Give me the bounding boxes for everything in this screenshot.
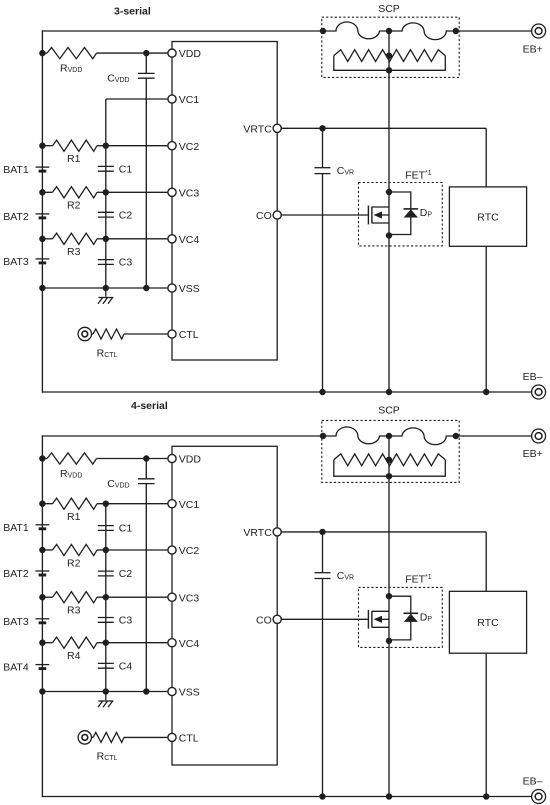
capacitor CVDD (4-serial) [138, 478, 155, 480]
node FET source (4-serial) [386, 638, 392, 644]
wire RTC to EB- rail (4-serial) [485, 653, 487, 796]
ground symbol (4-serial) [105, 692, 107, 701]
wire CO net (3-serial) [281, 214, 368, 216]
wire R2 leads (4-serial) [42, 549, 52, 551]
resistor R1 (4-serial) [53, 498, 98, 509]
node FET source (3-serial) [386, 232, 392, 238]
svg-text:BAT1: BAT1 [3, 164, 29, 176]
node VDD/rail junction (3-serial) [39, 50, 45, 56]
svg-text:C4: C4 [119, 660, 133, 672]
pin VC3 (4-serial) [168, 593, 176, 601]
pin VC4 (3-serial) [168, 235, 176, 243]
svg-text:R3: R3 [67, 246, 81, 258]
battery BAT3 (3-serial) [36, 258, 50, 260]
node RTC/EB- rail junction (4-serial) [483, 793, 489, 799]
svg-text:RCTL: RCTL [97, 347, 118, 359]
node sense/R3 junction (3-serial) [103, 236, 109, 242]
battery BAT4 (4-serial) [36, 664, 50, 666]
node CVDD/VDD junction (4-serial) [143, 455, 149, 461]
wire SCP output to EB+ (3-serial) [456, 30, 532, 32]
capacitor CVR (3-serial) [315, 167, 331, 169]
svg-text:BAT3: BAT3 [3, 616, 29, 628]
svg-text:RVDD: RVDD [60, 62, 82, 74]
svg-text:R1: R1 [67, 511, 81, 523]
wire R1 leads (4-serial) [42, 503, 52, 505]
node CVDD/VSS junction (3-serial) [143, 285, 149, 291]
SCP heater frame (4-serial) [334, 460, 446, 476]
node sense/VSS junction (4-serial) [103, 688, 109, 694]
wire CO net (4-serial) [281, 618, 368, 620]
svg-text:CTL: CTL [179, 733, 199, 745]
svg-text:VC1: VC1 [179, 94, 200, 106]
node SCP fuse center (4-serial) [386, 433, 392, 439]
node rail/R4 junction (4-serial) [39, 640, 45, 646]
svg-text:R1: R1 [67, 153, 81, 165]
transistor Q1 p-channel MOSFET (3-serial) [367, 206, 369, 225]
wire SCP center to FET to EB- rail (3-serial) [388, 31, 390, 392]
svg-text:VDD: VDD [179, 454, 202, 466]
wire SCP output to EB+ (4-serial) [456, 435, 532, 437]
pin VC3 (3-serial) [168, 188, 176, 196]
wire R3 leads (3-serial) [42, 238, 52, 240]
terminal EB- (4-serial) [532, 790, 546, 804]
svg-text:CO: CO [256, 614, 272, 626]
capacitor C3 (3-serial) [98, 259, 114, 261]
wire VSS row (3-serial) [42, 287, 168, 289]
wire CVR lower lead to EB- rail (4-serial) [322, 579, 324, 797]
ground symbol (3-serial) [105, 288, 107, 297]
terminal EB+ (4-serial) [532, 429, 546, 443]
pin CTL (3-serial) [168, 330, 176, 338]
wire sense node column (4-serial) [105, 504, 107, 692]
svg-text:EB+: EB+ [523, 448, 543, 460]
SCP heater resistor (4-serial) [334, 454, 446, 466]
node sense/R4 junction (4-serial) [103, 640, 109, 646]
RTC block (3-serial) [449, 187, 526, 246]
pin VC1 (4-serial) [168, 500, 176, 508]
svg-text:4-serial: 4-serial [131, 400, 168, 412]
resistor RCTL (3-serial) [93, 329, 124, 339]
node sense/R2 junction (4-serial) [103, 547, 109, 553]
battery BAT3 (4-serial) [36, 618, 50, 620]
svg-text:VRTC: VRTC [243, 527, 272, 539]
svg-text:C3: C3 [119, 257, 133, 269]
terminal CTL input (4-serial) [78, 731, 91, 744]
battery BAT1 (3-serial) [36, 166, 50, 168]
wire VC1 lead (3-serial) [106, 98, 168, 100]
wire RTC to EB- rail (3-serial) [485, 246, 487, 392]
transistor Q1 p-channel MOSFET (4-serial) [367, 610, 369, 629]
wire VRTC net (3-serial) [281, 127, 486, 129]
pin VRTC (4-serial) [273, 528, 281, 536]
wire R1 leads (3-serial) [42, 145, 52, 147]
node CVR/EB- rail junction (4-serial) [319, 793, 325, 799]
terminal EB+ (3-serial) [532, 24, 546, 38]
FET dashed outline (4-serial) [359, 587, 443, 647]
diode Dp body diode (4-serial) [389, 596, 411, 640]
wire left rail (4-serial) [41, 435, 43, 797]
svg-text:EB–: EB– [523, 776, 543, 788]
wire VRTC net (4-serial) [281, 531, 486, 533]
svg-text:DP: DP [420, 207, 433, 219]
node rail/R3 junction (4-serial) [39, 594, 45, 600]
svg-text:3-serial: 3-serial [114, 6, 151, 18]
capacitor CVDD (3-serial) [138, 72, 155, 74]
SCP thermal fuse element 1 (4-serial) [323, 427, 389, 444]
svg-text:RTC: RTC [477, 617, 499, 629]
wire CVR upper lead (4-serial) [322, 532, 324, 573]
node SCP fuse right (3-serial) [453, 28, 459, 34]
wire CVR upper lead (3-serial) [322, 128, 324, 167]
resistor R4 (4-serial) [53, 637, 98, 648]
node FET/EB- rail junction (4-serial) [386, 793, 392, 799]
node VDD/rail junction (4-serial) [39, 455, 45, 461]
svg-text:RCTL: RCTL [97, 751, 118, 763]
pin VSS (3-serial) [168, 284, 176, 292]
svg-text:C3: C3 [119, 615, 133, 627]
battery BAT2 (3-serial) [36, 213, 50, 215]
svg-text:CVDD: CVDD [107, 73, 129, 85]
svg-text:R3: R3 [67, 605, 81, 617]
node rail/R1 junction (3-serial) [39, 143, 45, 149]
svg-text:BAT1: BAT1 [3, 522, 29, 534]
resistor R2 (4-serial) [53, 544, 98, 555]
wire R4 leads (4-serial) [42, 642, 52, 644]
svg-text:VC3: VC3 [179, 187, 200, 199]
svg-text:VSS: VSS [179, 283, 200, 295]
terminal CTL input (3-serial) [78, 327, 91, 340]
node RTC/EB- rail junction (3-serial) [483, 389, 489, 395]
SCP heater resistor (3-serial) [334, 50, 446, 62]
pin VC1 (3-serial) [168, 95, 176, 103]
node rail/R1 junction (4-serial) [39, 501, 45, 507]
node rail/VSS junction (3-serial) [39, 285, 45, 291]
node rail/R2 junction (4-serial) [39, 547, 45, 553]
SCP dashed outline (3-serial) [322, 17, 459, 77]
node rail/VSS junction (4-serial) [39, 688, 45, 694]
pin VC2 (4-serial) [168, 546, 176, 554]
SCP thermal fuse element 1 (3-serial) [323, 22, 389, 39]
SCP thermal fuse element 2 (3-serial) [389, 23, 456, 40]
node FET/EB- rail junction (3-serial) [386, 389, 392, 395]
svg-text:CVDD: CVDD [107, 478, 129, 490]
wire bottom rail (4-serial) (VSS to EB-) [42, 796, 532, 798]
node CVR/EB- rail junction (3-serial) [319, 389, 325, 395]
node sense/R3 junction (4-serial) [103, 594, 109, 600]
svg-text:RVDD: RVDD [60, 468, 82, 480]
svg-text:BAT4: BAT4 [3, 662, 29, 674]
pin CO (4-serial) [273, 615, 281, 623]
svg-text:VRTC: VRTC [243, 123, 272, 135]
node VRTC/CVR junction (3-serial) [319, 125, 325, 131]
wire R3 leads (4-serial) [42, 596, 52, 598]
wire left rail (3-serial) [41, 30, 43, 392]
svg-text:VC1: VC1 [179, 499, 200, 511]
resistor RCTL (4-serial) [93, 732, 124, 742]
wire CVDD upper lead (3-serial) [145, 53, 147, 73]
svg-text:VSS: VSS [179, 687, 200, 699]
wire CVDD upper lead (4-serial) [145, 459, 147, 479]
IC protection-IC block (3-serial) [172, 42, 277, 361]
svg-text:VC2: VC2 [179, 141, 200, 153]
wire CVR lower lead to EB- rail (3-serial) [322, 174, 324, 392]
wire bottom rail (3-serial) (VSS to EB-) [42, 391, 532, 393]
svg-text:C1: C1 [119, 163, 133, 175]
resistor R3 (3-serial) [53, 233, 98, 244]
wire top rail (4-serial) (battery+ to SCP to EB+) [42, 435, 323, 437]
wire top rail (3-serial) (battery+ to SCP to EB+) [42, 30, 323, 32]
node SCP heater bottom (3-serial) [386, 67, 392, 73]
node rail/R3 junction (3-serial) [39, 236, 45, 242]
capacitor C4 (4-serial) [98, 662, 114, 664]
svg-text:VC3: VC3 [179, 592, 200, 604]
wire SCP center to FET to EB- rail (4-serial) [388, 436, 390, 797]
node sense/VSS junction (3-serial) [103, 285, 109, 291]
wire CVDD lower lead to VSS row (3-serial) [145, 78, 147, 288]
wire RCTL leads (4-serial) [92, 736, 94, 738]
svg-text:R2: R2 [67, 200, 81, 212]
resistor R1 (3-serial) [53, 140, 98, 151]
wire VDD row (3-serial) [42, 52, 47, 54]
node sense/R2 junction (3-serial) [103, 189, 109, 195]
node FET drain (4-serial) [386, 593, 392, 599]
svg-text:BAT2: BAT2 [3, 568, 29, 580]
wire R2 leads (3-serial) [42, 191, 52, 193]
svg-text:CO: CO [256, 210, 272, 222]
svg-text:BAT3: BAT3 [3, 256, 29, 268]
node SCP heater center (4-serial) [386, 457, 392, 463]
capacitor C2 (4-serial) [98, 570, 114, 572]
svg-text:VC4: VC4 [179, 638, 200, 650]
capacitor C1 (4-serial) [98, 525, 114, 527]
svg-text:C2: C2 [119, 568, 133, 580]
SCP heater frame (3-serial) [334, 56, 446, 71]
capacitor C2 (3-serial) [98, 211, 114, 213]
wire RCTL leads (3-serial) [92, 333, 94, 335]
svg-text:CVR: CVR [337, 570, 354, 582]
pin VRTC (3-serial) [273, 124, 281, 132]
SCP thermal fuse element 2 (4-serial) [389, 428, 456, 445]
svg-text:VC4: VC4 [179, 234, 200, 246]
node SCP heater bottom (4-serial) [386, 473, 392, 479]
IC protection-IC block (4-serial) [172, 446, 277, 765]
wire CVDD lower lead to VSS row (4-serial) [145, 484, 147, 692]
wire VDD row (4-serial) [42, 458, 47, 460]
svg-text:R2: R2 [67, 557, 81, 569]
battery BAT2 (4-serial) [36, 570, 50, 572]
resistor R3 (4-serial) [53, 592, 98, 603]
svg-text:SCP: SCP [378, 404, 400, 416]
capacitor C1 (3-serial) [98, 165, 114, 167]
pin CTL (4-serial) [168, 733, 176, 741]
RTC block (4-serial) [449, 591, 526, 653]
svg-text:RTC: RTC [477, 212, 499, 224]
resistor RVDD (3-serial) [47, 48, 97, 59]
terminal EB- (3-serial) [532, 385, 546, 399]
svg-text:FET*1: FET*1 [405, 574, 432, 586]
capacitor CVR (4-serial) [315, 572, 331, 574]
node rail/R2 junction (3-serial) [39, 189, 45, 195]
FET dashed outline (3-serial) [359, 183, 443, 246]
svg-text:CVR: CVR [337, 165, 354, 177]
battery BAT1 (4-serial) [36, 524, 50, 526]
pin CO (3-serial) [273, 211, 281, 219]
node FET drain (3-serial) [386, 189, 392, 195]
svg-text:FET*1: FET*1 [405, 170, 432, 182]
svg-text:VDD: VDD [179, 48, 202, 60]
svg-text:C1: C1 [119, 523, 133, 535]
svg-text:CTL: CTL [179, 329, 199, 341]
node SCP fuse center (3-serial) [386, 28, 392, 34]
pin VC4 (4-serial) [168, 639, 176, 647]
svg-text:SCP: SCP [378, 3, 400, 15]
svg-text:BAT2: BAT2 [3, 211, 29, 223]
capacitor C3 (4-serial) [98, 617, 114, 619]
node sense/R1 junction (3-serial) [103, 143, 109, 149]
resistor R2 (3-serial) [53, 187, 98, 198]
node SCP fuse right (4-serial) [453, 433, 459, 439]
diode Dp body diode (3-serial) [389, 192, 411, 235]
svg-text:C2: C2 [119, 209, 133, 221]
svg-text:EB+: EB+ [523, 44, 543, 56]
svg-text:EB–: EB– [523, 371, 543, 383]
pin VDD (3-serial) [168, 49, 176, 57]
pin VDD (4-serial) [168, 454, 176, 462]
svg-text:DP: DP [420, 612, 433, 624]
node CVDD/VDD junction (3-serial) [143, 50, 149, 56]
wire sense node column (3-serial) [105, 99, 107, 288]
node SCP heater center (3-serial) [386, 52, 392, 58]
SCP dashed outline (4-serial) [322, 420, 459, 482]
resistor RVDD (4-serial) [47, 453, 97, 464]
node SCP fuse left (3-serial) [320, 28, 326, 34]
pin VC2 (3-serial) [168, 142, 176, 150]
svg-text:VC2: VC2 [179, 545, 200, 557]
node VRTC/CVR junction (4-serial) [319, 529, 325, 535]
wire VSS row (4-serial) [42, 691, 168, 693]
pin VSS (4-serial) [168, 687, 176, 695]
node SCP fuse left (4-serial) [320, 433, 326, 439]
svg-text:R4: R4 [67, 650, 81, 662]
node sense/R1 junction (4-serial) [103, 501, 109, 507]
node CVDD/VSS junction (4-serial) [143, 688, 149, 694]
